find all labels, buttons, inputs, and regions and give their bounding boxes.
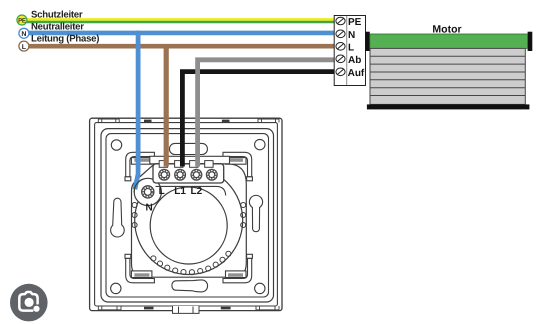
svg-text:L1: L1 xyxy=(174,186,186,197)
svg-text:Schutzleiter: Schutzleiter xyxy=(31,10,83,21)
wire N vertical (blue) xyxy=(135,31,138,190)
dial top flange xyxy=(156,186,226,195)
mounting plate inner xyxy=(106,134,269,297)
svg-text:Neutralleiter: Neutralleiter xyxy=(31,22,84,33)
frame tab bottom-right xyxy=(256,306,279,310)
dial circle xyxy=(150,187,227,264)
terminal block xyxy=(334,16,365,86)
plate right keyhole cutout xyxy=(249,195,262,231)
plate screw top-left xyxy=(111,140,121,150)
strip notch spare xyxy=(205,161,213,168)
motor left cap xyxy=(365,32,370,51)
svg-text:N: N xyxy=(146,202,153,213)
svg-text:L2: L2 xyxy=(191,186,203,197)
block screw L xyxy=(336,43,345,51)
frame clip slot top-left xyxy=(144,120,152,123)
svg-text:PE: PE xyxy=(348,17,362,28)
strip upper lip bar xyxy=(150,156,230,164)
body edge bumps left xyxy=(132,203,137,208)
terminal spare xyxy=(206,169,217,180)
motor bottom bar xyxy=(367,104,530,109)
N terminal boss edge over wire xyxy=(134,179,143,192)
switch inner frame xyxy=(95,123,278,306)
frame clip slot top-right xyxy=(222,120,230,123)
mounting plate outer xyxy=(101,129,274,302)
claw bottom-left xyxy=(125,254,154,282)
motor right cap xyxy=(528,32,533,51)
dial dot ring xyxy=(151,251,231,275)
frame tab top-left xyxy=(98,119,119,123)
frame clip slot bottom-right xyxy=(221,307,231,310)
svg-text:L: L xyxy=(159,186,165,197)
strip notch L1 xyxy=(175,161,183,168)
mechanism outer circle xyxy=(135,167,243,275)
claw bottom-right xyxy=(223,254,252,282)
motor body xyxy=(370,48,525,104)
strip notch L xyxy=(159,161,167,168)
wire PE yellow stripe xyxy=(27,18,335,21)
claw top-right xyxy=(223,152,252,181)
svg-text:L: L xyxy=(348,42,354,53)
switch outer frame xyxy=(90,118,282,310)
motor green rail xyxy=(370,34,528,48)
node N symbol xyxy=(19,28,29,38)
block screw PE xyxy=(336,17,345,25)
svg-text:Leitung (Phase): Leitung (Phase) xyxy=(31,34,99,45)
svg-text:PE: PE xyxy=(18,17,26,24)
svg-text:Auf: Auf xyxy=(348,68,365,79)
wire L horizontal (brown) xyxy=(29,44,335,49)
wire N horizontal (blue) xyxy=(29,31,335,36)
node PE symbol xyxy=(17,15,27,25)
plate screw bottom-left xyxy=(111,283,121,293)
mechanism body xyxy=(132,164,247,277)
camera lens button xyxy=(10,284,48,322)
terminal N xyxy=(142,186,154,198)
block screw Ab xyxy=(336,55,345,63)
frame tab bottom-left xyxy=(98,306,121,310)
frame clip slot bottom-left xyxy=(144,307,154,310)
svg-text:N: N xyxy=(348,30,355,41)
N terminal boss xyxy=(134,178,161,205)
claw top-left xyxy=(125,152,154,181)
plate screw top-right xyxy=(255,139,265,149)
wire Auf (black) xyxy=(182,72,334,167)
svg-text:Ab: Ab xyxy=(348,55,361,66)
strip notch L2 xyxy=(190,161,198,168)
node L symbol xyxy=(19,41,29,51)
plate bottom bone cutout xyxy=(172,280,208,292)
terminal L2 xyxy=(191,169,202,180)
motor slats xyxy=(370,56,525,95)
frame tab top-right xyxy=(258,119,279,123)
plate left keyhole cutout xyxy=(111,198,125,237)
body edge bumps right xyxy=(241,203,246,208)
wire PE green stripe xyxy=(27,21,335,24)
block screw N xyxy=(336,30,345,38)
frame bottom center tab xyxy=(173,306,200,313)
terminal L xyxy=(159,169,170,180)
wire Ab (grey) xyxy=(198,60,335,167)
plate top oval cutout xyxy=(170,143,208,154)
block screw Auf xyxy=(336,68,345,76)
wire L vertical (brown) xyxy=(164,44,169,167)
svg-text:N: N xyxy=(21,31,26,38)
switch terminal strip xyxy=(153,164,224,183)
terminal L1 xyxy=(175,169,186,180)
plate screw bottom-right xyxy=(255,283,265,293)
svg-text:L: L xyxy=(22,44,27,51)
